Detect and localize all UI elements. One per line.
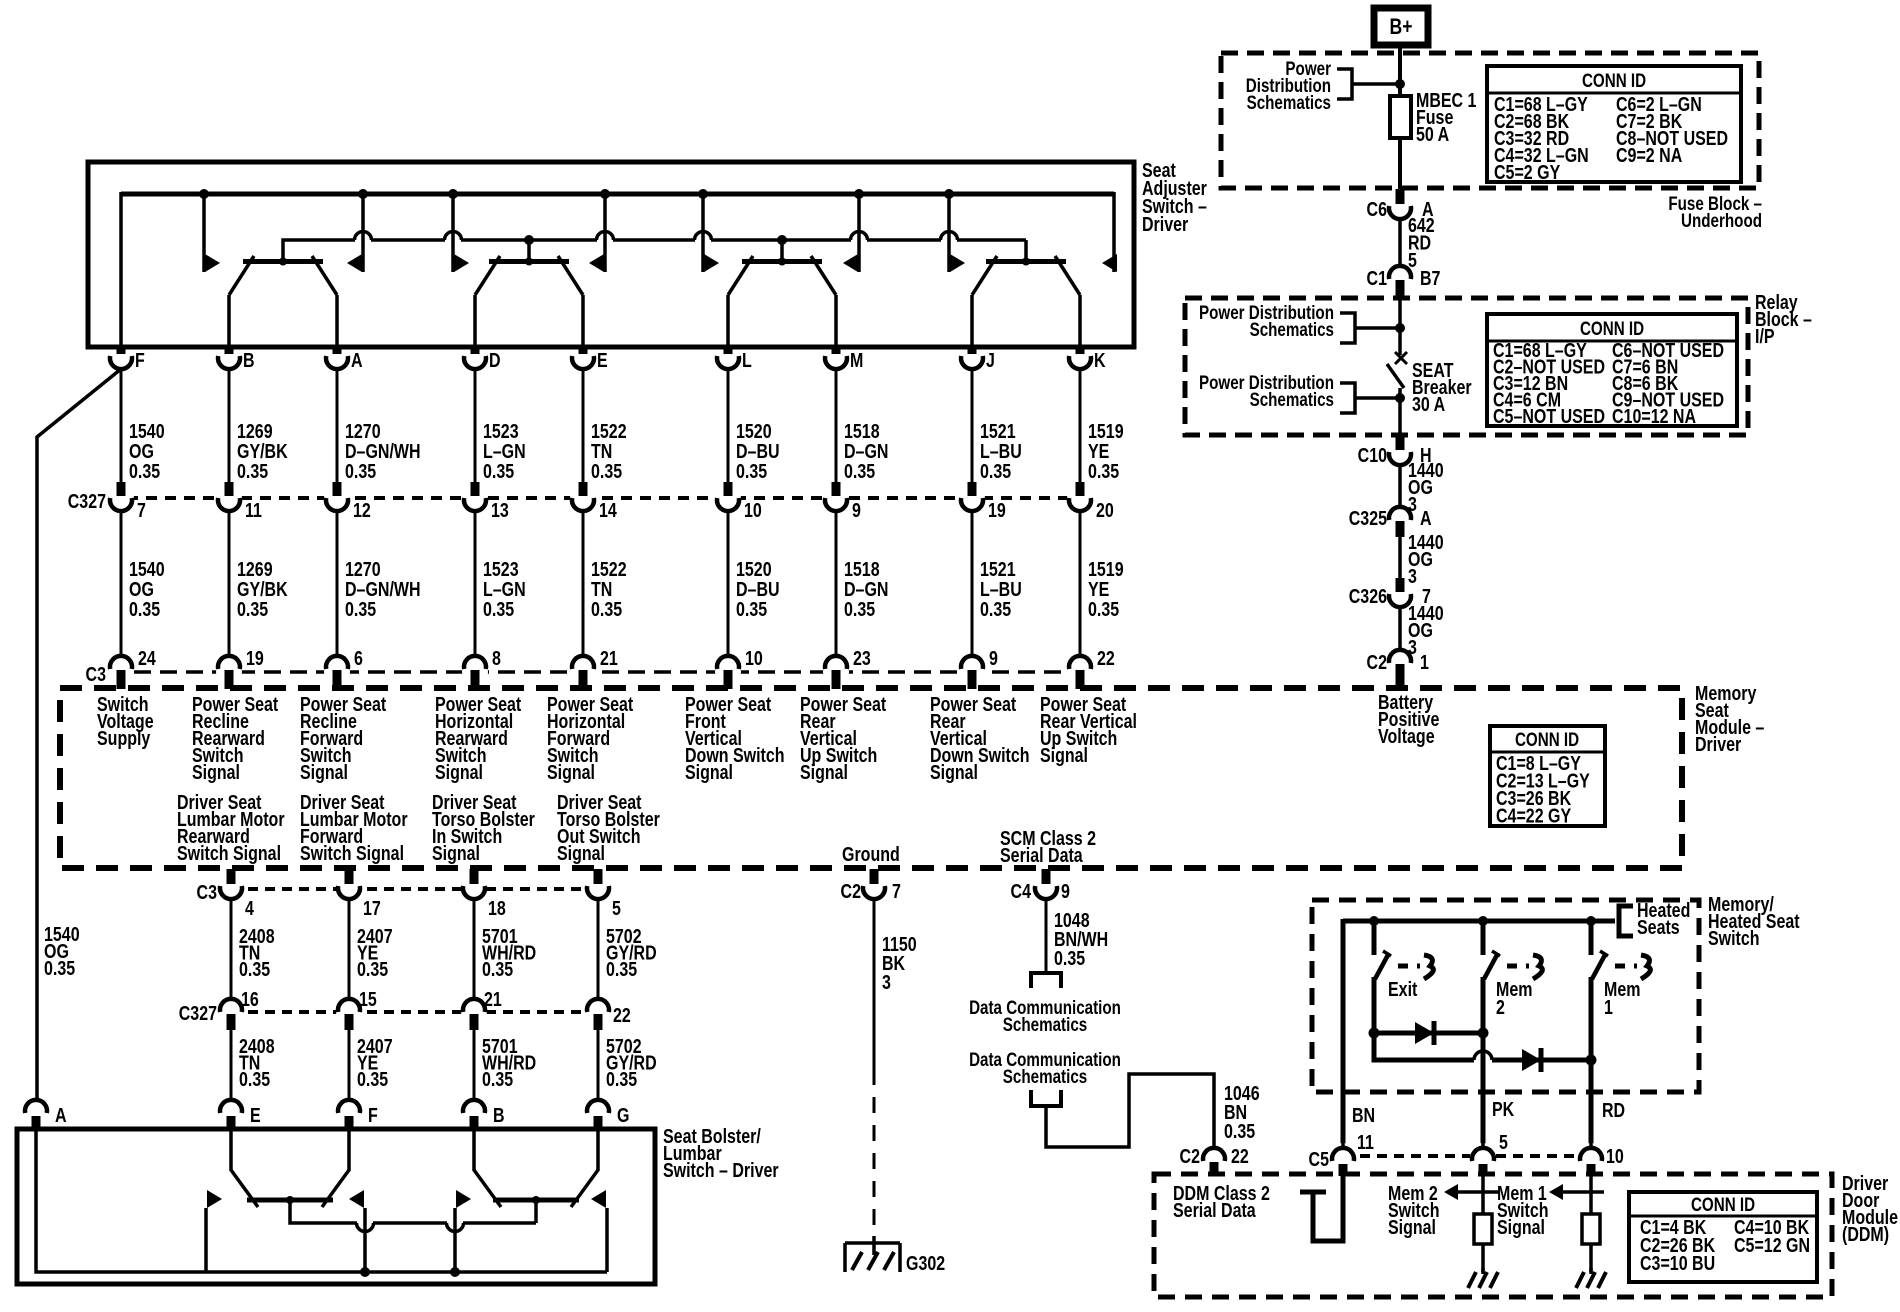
resistor on PK — [1474, 1214, 1492, 1244]
svg-text:Signal: Signal — [557, 842, 605, 864]
wire label 1540 OG 0.35 (left) — [44, 923, 80, 979]
svg-text:7: 7 — [137, 499, 146, 521]
svg-text:Voltage: Voltage — [1378, 725, 1435, 747]
svg-text:C4=22 GY: C4=22 GY — [1496, 805, 1571, 827]
seat breaker label — [1412, 359, 1472, 415]
svg-text:Switch: Switch — [1708, 927, 1760, 949]
power distribution schematics reference 1 (relay block) — [1199, 301, 1400, 343]
connector C5 pin 10 — [1578, 1138, 1624, 1176]
svg-text:C3=10 BU: C3=10 BU — [1640, 1252, 1715, 1274]
svg-text:0.35: 0.35 — [357, 1068, 388, 1090]
connector pin E (seat bolster switch) — [220, 1100, 261, 1130]
svg-text:0.35: 0.35 — [483, 460, 514, 482]
diode D2 — [1522, 1048, 1541, 1072]
connector C327 pin 14 — [570, 482, 617, 521]
wire 1518 upper segment — [835, 369, 838, 482]
svg-text:Signal: Signal — [1040, 744, 1088, 766]
svg-text:CONN ID: CONN ID — [1515, 728, 1579, 750]
svg-text:16: 16 — [241, 988, 259, 1010]
wire 2407 upper segment — [348, 899, 351, 1000]
connector C327 dashed line — [108, 496, 1093, 500]
connector pin D of seat adjuster switch — [464, 345, 501, 371]
wire 1523 upper segment — [474, 369, 477, 482]
svg-text:C2: C2 — [1367, 651, 1387, 673]
connector C4 pin 9 — [1011, 869, 1070, 902]
wire label 1540 OG 0.35 (upper) — [129, 420, 165, 482]
svg-text:Underhood: Underhood — [1681, 209, 1762, 231]
wire label 1270 D–GN/WH 0.35 (upper) — [345, 420, 421, 482]
svg-text:C10: C10 — [1358, 444, 1387, 466]
svg-text:OG: OG — [129, 440, 154, 462]
wire 1150 BK 3 solid — [873, 899, 876, 1069]
svg-text:9: 9 — [989, 647, 998, 669]
connector C327 label — [68, 490, 106, 512]
svg-text:18: 18 — [488, 897, 506, 919]
svg-text:0.35: 0.35 — [1088, 598, 1119, 620]
svg-text:11: 11 — [245, 499, 262, 521]
wire label 1518 D–GN 0.35 (upper) — [844, 420, 888, 482]
svg-text:14: 14 — [599, 499, 617, 521]
svg-text:10: 10 — [745, 647, 763, 669]
fuse MBEC 1 label — [1416, 89, 1476, 145]
svg-text:1521: 1521 — [980, 558, 1016, 580]
svg-text:1: 1 — [1604, 996, 1613, 1018]
svg-text:PK: PK — [1492, 1098, 1514, 1120]
svg-text:OG: OG — [129, 578, 154, 600]
wire label 1519 YE 0.35 (upper) — [1088, 420, 1124, 482]
signal label at x=800 — [800, 693, 886, 783]
svg-text:1523: 1523 — [483, 420, 519, 442]
riser arrow at x=455 — [455, 1190, 471, 1272]
svg-text:22: 22 — [1231, 1145, 1249, 1167]
relay block CONN ID table — [1487, 314, 1737, 427]
ground G302 label — [906, 1252, 945, 1274]
signal label at x=97 — [97, 693, 154, 749]
heated seats bus — [1343, 916, 1615, 926]
wire label 1046 BN 0.35 — [1224, 1082, 1260, 1142]
connector C3 (lower) dashed line — [231, 887, 598, 891]
wire label 1521 L–BU 0.35 (upper) — [980, 420, 1022, 482]
svg-text:0.35: 0.35 — [844, 598, 875, 620]
svg-text:C5–NOT USED: C5–NOT USED — [1493, 405, 1605, 427]
rocker switch D-E — [475, 256, 583, 295]
svg-text:4: 4 — [245, 897, 254, 919]
svg-text:Driver: Driver — [1142, 213, 1188, 235]
switch contact arrow at x=453 — [448, 189, 469, 272]
wire label 1520 D–BU 0.35 (upper) — [736, 420, 780, 482]
connector C3 pin 23 — [823, 647, 871, 689]
connector pin M of seat adjuster switch — [825, 345, 863, 371]
svg-text:1270: 1270 — [345, 420, 381, 442]
svg-text:D–GN: D–GN — [844, 440, 888, 462]
svg-text:19: 19 — [988, 499, 1006, 521]
svg-text:Switch – Driver: Switch – Driver — [663, 1159, 779, 1181]
wire label 1150 BK 3 — [882, 933, 917, 993]
svg-text:C327: C327 — [179, 1002, 217, 1024]
svg-text:GY/BK: GY/BK — [237, 578, 288, 600]
wire label 5702 GY/RD 0.35 (lower) — [606, 1035, 657, 1090]
data communication schematics label 2 — [969, 1048, 1121, 1087]
svg-text:Signal: Signal — [1388, 1216, 1436, 1238]
rail bottom bus — [206, 1267, 607, 1277]
wire 642 RD 5 — [1398, 219, 1402, 266]
heated seats label — [1637, 899, 1690, 938]
wire bus1 right drop with arrow — [1102, 192, 1117, 272]
wire 1440 OG 3 (seg 1) — [1398, 465, 1402, 507]
rocker switch L-M — [728, 256, 836, 295]
svg-text:B: B — [493, 1104, 505, 1126]
svg-text:0.35: 0.35 — [129, 598, 160, 620]
svg-text:12: 12 — [353, 499, 371, 521]
svg-text:A: A — [55, 1104, 67, 1126]
wire label 1519 YE 0.35 (lower) — [1088, 558, 1124, 620]
BN terminator in DDM — [1300, 1176, 1343, 1241]
svg-text:C325: C325 — [1349, 507, 1387, 529]
connector pin B of seat adjuster switch — [218, 345, 255, 371]
svg-text:Serial Data: Serial Data — [1173, 1199, 1257, 1221]
svg-text:B: B — [243, 349, 255, 371]
svg-text:Switch Signal: Switch Signal — [300, 842, 404, 864]
svg-text:0.35: 0.35 — [482, 1068, 513, 1090]
svg-text:1520: 1520 — [736, 558, 772, 580]
wire label 5701 WH/RD 0.35 (upper) — [482, 925, 536, 980]
wire label 1269 GY/BK 0.35 (lower) — [237, 558, 288, 620]
connector C327 pin 13 — [462, 482, 509, 521]
svg-text:Signal: Signal — [192, 761, 240, 783]
svg-text:0.35: 0.35 — [606, 958, 637, 980]
wire PK to ground — [1481, 1244, 1485, 1272]
signal label 2 at x=557 — [557, 791, 660, 864]
svg-text:1521: 1521 — [980, 420, 1016, 442]
svg-text:0.35: 0.35 — [844, 460, 875, 482]
signal label at x=192 — [192, 693, 278, 783]
riser arrow at x=365 — [349, 1190, 365, 1272]
svg-text:Ground: Ground — [842, 843, 900, 865]
connector C3 (lower) label — [197, 881, 217, 903]
svg-text:1518: 1518 — [844, 420, 880, 442]
connector C3 pin 4 (lower) — [218, 869, 254, 919]
data communication schematics label 1 — [969, 996, 1121, 1035]
svg-text:0.35: 0.35 — [980, 598, 1011, 620]
wire 1270 upper segment — [336, 369, 339, 482]
svg-text:C327: C327 — [68, 490, 106, 512]
wire 1520 lower segment — [727, 511, 730, 657]
diode row 2 wire — [1374, 1033, 1597, 1066]
svg-text:L–BU: L–BU — [980, 578, 1022, 600]
svg-text:D–GN/WH: D–GN/WH — [345, 440, 421, 462]
svg-text:0.35: 0.35 — [482, 958, 513, 980]
wire label 1269 GY/BK 0.35 (upper) — [237, 420, 288, 482]
svg-text:8: 8 — [492, 647, 501, 669]
wire pin L vertical in box — [726, 295, 730, 346]
connector C327 (lower) dashed line — [231, 1010, 598, 1014]
data communication schematics reference 1 — [1031, 973, 1061, 988]
wire breaker to C10 — [1395, 388, 1405, 436]
memory seat module CONN ID table — [1490, 726, 1605, 827]
seat adjuster switch - driver box outline — [88, 162, 1134, 347]
svg-text:RD: RD — [1602, 1099, 1625, 1121]
svg-text:0.35: 0.35 — [1224, 1120, 1255, 1142]
svg-text:11: 11 — [1357, 1131, 1374, 1153]
signal label at x=547 — [547, 693, 633, 783]
wire pin G vertical in bolster box — [596, 1130, 600, 1171]
svg-text:3: 3 — [1408, 565, 1417, 587]
svg-text:23: 23 — [853, 647, 871, 669]
connector C2 pin 22 — [1180, 1145, 1249, 1176]
SCM class 2 serial data label — [1000, 827, 1096, 866]
svg-text:1519: 1519 — [1088, 558, 1124, 580]
connector C2 pin 1 — [1367, 650, 1429, 689]
svg-text:Schematics: Schematics — [1250, 318, 1334, 340]
svg-text:YE: YE — [1088, 578, 1109, 600]
wire pin A vertical in box — [335, 295, 339, 346]
svg-text:G302: G302 — [906, 1252, 945, 1274]
connector pin A (seat bolster switch) — [25, 1100, 67, 1130]
svg-text:1518: 1518 — [844, 558, 880, 580]
wire pin F vertical in bolster box — [347, 1130, 351, 1171]
memory/heated seat switch box — [1312, 900, 1699, 1092]
svg-text:6: 6 — [354, 647, 363, 669]
svg-text:1: 1 — [1420, 651, 1429, 673]
svg-text:Signal: Signal — [300, 761, 348, 783]
svg-text:L–GN: L–GN — [483, 578, 526, 600]
svg-text:Signal: Signal — [432, 842, 480, 864]
switch contact arrow at x=363 — [347, 189, 368, 272]
seat breaker 30 A — [1387, 352, 1407, 388]
svg-text:5: 5 — [612, 897, 621, 919]
svg-text:Serial Data: Serial Data — [1000, 844, 1084, 866]
connector C5 dashed line — [1343, 1154, 1591, 1158]
svg-text:24: 24 — [138, 647, 156, 669]
connector C3 label — [86, 663, 106, 685]
connector C327 pin 15 (lower) — [336, 988, 377, 1030]
svg-text:22: 22 — [1097, 647, 1115, 669]
wire 1521 lower segment — [971, 511, 974, 657]
relay block - I/P box — [1185, 298, 1748, 435]
wire 1521 upper segment — [971, 369, 974, 482]
wire label 2408 TN 0.35 (upper) — [239, 925, 275, 980]
svg-text:9: 9 — [852, 499, 861, 521]
wire label 1523 L–GN 0.35 (lower) — [483, 558, 526, 620]
svg-text:C5=12 GN: C5=12 GN — [1734, 1234, 1810, 1256]
wire 1046 BN routing — [1046, 1074, 1214, 1148]
svg-text:0.35: 0.35 — [44, 957, 75, 979]
resistor on RD — [1582, 1214, 1600, 1244]
wire label BN — [1352, 1104, 1375, 1126]
svg-text:BN: BN — [1352, 1104, 1375, 1126]
svg-text:Signal: Signal — [800, 761, 848, 783]
svg-text:0.35: 0.35 — [345, 598, 376, 620]
driver door module box — [1154, 1174, 1832, 1297]
wire F vertical in box — [119, 192, 123, 346]
wire label 1521 L–BU 0.35 (lower) — [980, 558, 1022, 620]
signal label at x=1040 — [1040, 693, 1137, 766]
svg-text:1540: 1540 — [129, 558, 165, 580]
svg-text:0.35: 0.35 — [345, 460, 376, 482]
svg-text:1269: 1269 — [237, 420, 273, 442]
diode D1 — [1415, 1021, 1434, 1045]
wire 1270 lower segment — [336, 511, 339, 657]
connector C327 pin 12 — [324, 482, 371, 521]
connector C3 pin 9 — [959, 647, 998, 689]
wire PK in DDM — [1481, 1176, 1485, 1214]
connector C3 pin 8 — [462, 647, 501, 689]
svg-text:E: E — [250, 1104, 261, 1126]
mem 1 switch — [1591, 921, 1650, 1035]
svg-text:C10=12 NA: C10=12 NA — [1612, 405, 1696, 427]
power distribution schematics reference (fuse block) — [1246, 57, 1400, 113]
wire label 5701 WH/RD 0.35 (lower) — [482, 1035, 536, 1090]
svg-text:Switch Signal: Switch Signal — [177, 842, 281, 864]
switch contact arrow at x=703 — [698, 189, 719, 272]
mem 1 switch signal label — [1497, 1182, 1549, 1238]
rocker switch J-K — [972, 256, 1080, 295]
connector pin F of seat adjuster switch — [110, 345, 145, 371]
wire RD in DDM — [1589, 1176, 1593, 1214]
connector pin K of seat adjuster switch — [1069, 345, 1106, 371]
svg-text:Seats: Seats — [1637, 916, 1680, 938]
svg-text:0.35: 0.35 — [1054, 947, 1085, 969]
svg-text:D–BU: D–BU — [736, 578, 780, 600]
signal label 2 at x=432 — [432, 791, 535, 864]
wire label 1522 TN 0.35 (lower) — [591, 558, 627, 620]
signal label at x=930 — [930, 693, 1030, 783]
svg-text:D: D — [489, 349, 501, 371]
svg-text:19: 19 — [246, 647, 264, 669]
chassis ground (PK) — [1468, 1268, 1498, 1288]
connector C10 pin H — [1358, 436, 1432, 466]
svg-text:CONN ID: CONN ID — [1582, 69, 1646, 91]
connector pin J of seat adjuster switch — [961, 345, 995, 371]
wire pin J vertical in box — [970, 295, 974, 346]
svg-text:Signal: Signal — [1497, 1216, 1545, 1238]
memory/heated seat switch label — [1708, 893, 1800, 949]
wire pin B vertical in bolster box — [472, 1130, 476, 1171]
wire 1522 lower segment — [582, 511, 585, 657]
wire 1540 OG diagonal from pin F — [37, 369, 121, 1101]
svg-text:C5=2 GY: C5=2 GY — [1494, 161, 1560, 183]
wire 1519 lower segment — [1079, 511, 1082, 657]
mem 2 switch signal arrow — [1444, 1184, 1499, 1200]
signal label 2 at x=300 — [300, 791, 408, 864]
svg-text:G: G — [617, 1104, 629, 1126]
svg-text:CONN ID: CONN ID — [1691, 1193, 1755, 1215]
wire label 642 RD 5 — [1408, 214, 1435, 271]
rocker switch E-F (seat bolster) — [231, 1170, 349, 1207]
svg-text:22: 22 — [613, 1004, 631, 1026]
svg-text:0.35: 0.35 — [239, 958, 270, 980]
svg-text:0.35: 0.35 — [483, 598, 514, 620]
wire bus1 (switch common feed) — [121, 192, 1114, 197]
svg-text:1522: 1522 — [591, 420, 627, 442]
svg-text:17: 17 — [363, 897, 381, 919]
svg-text:1523: 1523 — [483, 558, 519, 580]
mem 1 switch signal arrow — [1549, 1184, 1604, 1200]
svg-text:0.35: 0.35 — [736, 460, 767, 482]
wire label 1440 OG 3 (2) — [1408, 531, 1444, 587]
svg-text:YE: YE — [1088, 440, 1109, 462]
connector pin E of seat adjuster switch — [572, 345, 608, 371]
wire pin K vertical in box — [1078, 295, 1082, 346]
wire 2408 upper segment — [230, 899, 233, 1000]
svg-text:0.35: 0.35 — [239, 1068, 270, 1090]
svg-text:1540: 1540 — [129, 420, 165, 442]
svg-text:Supply: Supply — [97, 727, 150, 749]
wire label 1520 D–BU 0.35 (lower) — [736, 558, 780, 620]
wire pin E vertical in bolster box — [229, 1130, 233, 1171]
wire 1519 upper segment — [1079, 369, 1082, 482]
exit switch — [1374, 921, 1433, 1035]
connector C3 pin 19 — [216, 647, 264, 689]
connector pin A of seat adjuster switch — [326, 345, 363, 371]
svg-text:10: 10 — [744, 499, 762, 521]
svg-text:0.35: 0.35 — [237, 460, 268, 482]
signal label at x=300 — [300, 693, 386, 783]
svg-text:C6: C6 — [1367, 198, 1387, 220]
svg-text:13: 13 — [491, 499, 509, 521]
connector C327 pin 19 — [959, 482, 1006, 521]
wire 5702 upper segment — [597, 899, 600, 1000]
chassis ground (RD) — [1576, 1268, 1606, 1288]
svg-text:50 A: 50 A — [1416, 123, 1449, 145]
driver door module CONN ID table — [1629, 1192, 1817, 1282]
seat bolster/lumbar switch - driver label — [663, 1125, 779, 1181]
connector C3 pin 21 — [570, 647, 618, 689]
svg-text:C2: C2 — [1180, 1145, 1200, 1167]
svg-text:D–GN/WH: D–GN/WH — [345, 578, 421, 600]
wire 1518 lower segment — [835, 511, 838, 657]
svg-text:9: 9 — [1061, 880, 1070, 902]
svg-text:Signal: Signal — [930, 761, 978, 783]
svg-text:1519: 1519 — [1088, 420, 1124, 442]
connector C5 pin 11 — [1330, 1131, 1374, 1176]
wire 1269 upper segment — [228, 369, 231, 482]
relay block - I/P label — [1755, 291, 1812, 347]
data communication schematics reference 2 — [1031, 1090, 1061, 1106]
ground signal label — [842, 843, 900, 865]
svg-text:B7: B7 — [1420, 267, 1440, 289]
svg-text:B+: B+ — [1390, 15, 1413, 39]
wire 5701 upper segment — [473, 899, 476, 1000]
wire 2408 lower segment — [230, 1026, 233, 1101]
connector C327 pin 11 — [216, 482, 262, 521]
svg-text:1522: 1522 — [591, 558, 627, 580]
wire 1540 upper segment (F to C327) — [120, 369, 123, 482]
wire label 5702 GY/RD 0.35 (upper) — [606, 925, 657, 980]
connector C327 pin 16 (lower) — [218, 988, 259, 1030]
battery B+ terminal — [1374, 8, 1428, 45]
wire 5702 lower segment — [597, 1026, 600, 1101]
wire pin B vertical in box — [227, 295, 231, 346]
svg-text:L–BU: L–BU — [980, 440, 1022, 462]
connector C3 pin 5 (lower) — [585, 869, 621, 919]
connector C2 pin 7 (ground) — [841, 869, 901, 902]
battery positive voltage label — [1378, 691, 1439, 747]
wire 1520 upper segment — [727, 369, 730, 482]
wire label 2408 TN 0.35 (lower) — [239, 1035, 275, 1090]
svg-text:C9=2 NA: C9=2 NA — [1616, 144, 1682, 166]
svg-text:GY/BK: GY/BK — [237, 440, 288, 462]
wire label RD — [1602, 1099, 1625, 1121]
svg-text:D–GN: D–GN — [844, 578, 888, 600]
svg-text:TN: TN — [591, 578, 612, 600]
svg-text:M: M — [850, 349, 863, 371]
connector C3 pin 22 — [1067, 647, 1115, 689]
wire PK vertical — [1481, 1035, 1486, 1149]
wire label 1523 L–GN 0.35 (upper) — [483, 420, 526, 482]
wire 1540 lower segment — [120, 511, 123, 657]
svg-text:TN: TN — [591, 440, 612, 462]
